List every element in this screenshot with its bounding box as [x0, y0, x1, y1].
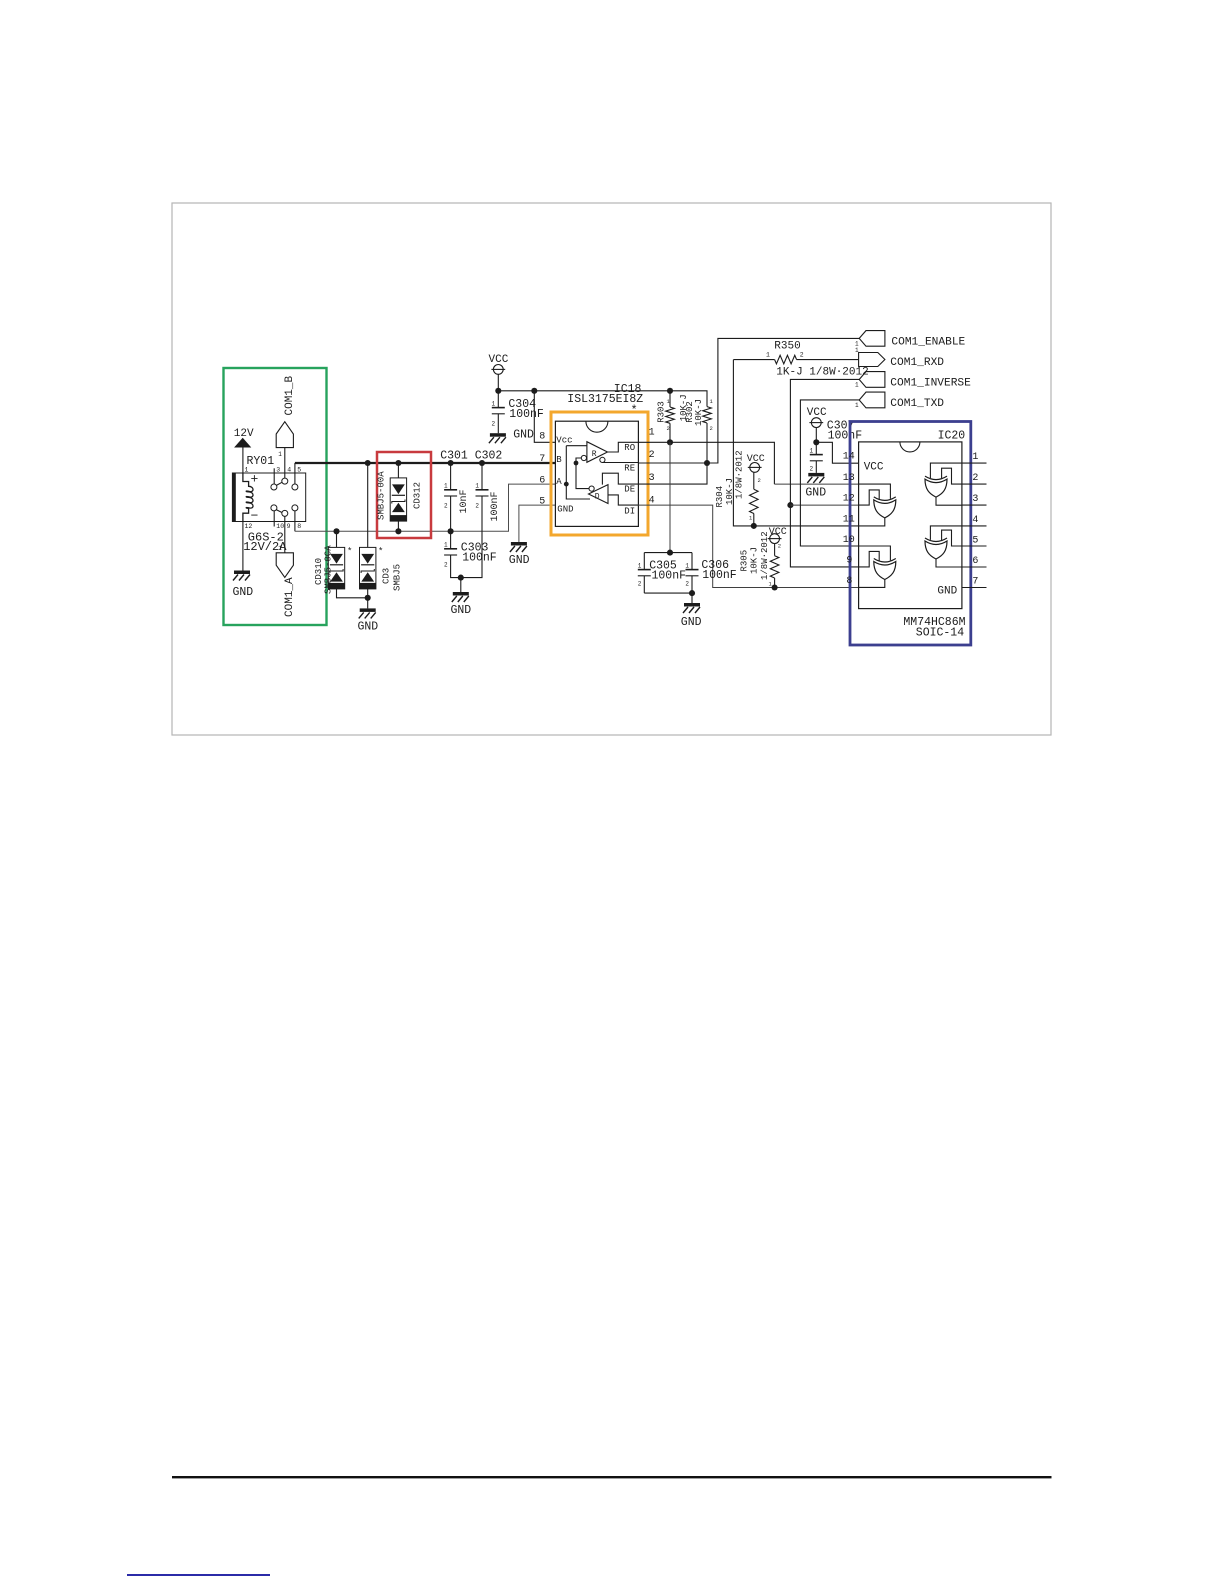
- svg-text:2: 2: [649, 450, 655, 461]
- wire VCC rail: [498, 391, 707, 407]
- svg-text:1: 1: [278, 451, 282, 458]
- svg-text:CD3: CD3: [382, 568, 392, 584]
- svg-text:8: 8: [297, 523, 301, 530]
- svg-text:VCC: VCC: [864, 461, 884, 473]
- svg-text:10K-J: 10K-J: [694, 399, 704, 426]
- svg-text:100nF: 100nF: [509, 408, 544, 421]
- svg-text:GND: GND: [805, 486, 826, 499]
- svg-text:1: 1: [685, 562, 689, 569]
- svg-text:4: 4: [287, 466, 291, 473]
- capacitor C306: [691, 553, 693, 570]
- svg-text:2: 2: [444, 503, 448, 510]
- wire RO node to IC20 pin 13: [774, 483, 858, 485]
- svg-text:COM1_INVERSE: COM1_INVERSE: [890, 378, 971, 390]
- IC18 driver triangle D: [589, 485, 609, 504]
- svg-text:1: 1: [766, 351, 770, 358]
- svg-text:7: 7: [972, 577, 978, 588]
- svg-text:1K-J 1/8W·2012: 1K-J 1/8W·2012: [776, 366, 868, 378]
- wire R350 to IC20 pin 11: [733, 360, 858, 526]
- IC18 receiver triangle R: [587, 442, 608, 463]
- svg-text:D: D: [595, 492, 600, 501]
- svg-text:COM1_TXD: COM1_TXD: [890, 398, 944, 410]
- svg-text:A: A: [556, 477, 562, 487]
- bottom-left blue link line: [127, 1574, 270, 1576]
- svg-text:SOIC-14: SOIC-14: [916, 626, 964, 639]
- svg-text:CD312: CD312: [413, 482, 423, 509]
- svg-text:6: 6: [539, 475, 545, 486]
- ground symbol (diodes): [360, 608, 376, 612]
- connector flag COM1_B: [276, 422, 293, 448]
- svg-text:B: B: [556, 455, 562, 465]
- svg-text:3: 3: [649, 473, 655, 484]
- svg-text:GND: GND: [358, 621, 379, 634]
- XOR gate 1 (pins 1,2 -> 3): [925, 476, 947, 480]
- svg-text:1: 1: [810, 447, 814, 454]
- wire COM1_TXD to IC20 pin 10: [800, 400, 859, 546]
- svg-text:100nF: 100nF: [652, 570, 687, 583]
- svg-text:GND: GND: [451, 604, 472, 617]
- svg-text:1: 1: [245, 466, 249, 473]
- svg-text:2: 2: [475, 503, 479, 510]
- wire C307/VCC to IC20 pin 14: [816, 442, 858, 463]
- svg-text:8: 8: [846, 576, 852, 587]
- relay RY01 body: [232, 473, 305, 522]
- capacitor C301: [450, 463, 452, 490]
- svg-text:*: *: [378, 547, 383, 557]
- wire lower bus A net: [295, 484, 556, 531]
- svg-text:10nF: 10nF: [459, 489, 470, 513]
- svg-text:10K-J: 10K-J: [750, 547, 760, 574]
- diode CD310: [336, 531, 338, 547]
- wire RO net: [638, 442, 774, 484]
- svg-text:SMBJ5-00A: SMBJ5-00A: [376, 471, 386, 520]
- relay contacts top row: [271, 484, 277, 490]
- connector flag COM1_RXD: [859, 353, 885, 367]
- svg-text:GND: GND: [513, 429, 534, 442]
- node diodes to ground: [365, 595, 371, 601]
- junction dots on buses: [365, 460, 371, 466]
- svg-text:R305: R305: [740, 550, 750, 572]
- svg-text:12V: 12V: [234, 428, 254, 440]
- svg-text:COM1_ENABLE: COM1_ENABLE: [891, 336, 965, 348]
- svg-text:3: 3: [972, 494, 978, 505]
- svg-text:1/8W·2012: 1/8W·2012: [760, 531, 770, 580]
- node C302/C303 to ground: [458, 575, 464, 581]
- resistor R302: [703, 407, 712, 423]
- IC20 right pin stubs: [962, 462, 987, 464]
- svg-text:2: 2: [972, 473, 978, 484]
- wire VCC to IC18 pin 8: [534, 391, 555, 443]
- svg-text:GND: GND: [937, 585, 957, 597]
- svg-text:COM1_B: COM1_B: [284, 375, 296, 415]
- svg-text:2: 2: [710, 425, 713, 432]
- svg-text:10: 10: [843, 535, 855, 546]
- wire RE to COM1_ENABLE: [638, 338, 859, 463]
- diode CD312: [397, 463, 399, 478]
- ground symbol (C305/C306): [684, 603, 700, 607]
- svg-text:2: 2: [810, 465, 814, 472]
- transceiver highlight box (orange): [551, 412, 648, 535]
- wire COM1_INVERSE to IC20 pins 12/9: [790, 379, 859, 567]
- svg-text:1: 1: [444, 542, 448, 549]
- capacitor C303: [450, 531, 452, 549]
- wire relay pin 12 to ground: [242, 522, 244, 571]
- wire IC20 pin 12: [790, 504, 858, 506]
- svg-text:CD310: CD310: [314, 558, 324, 585]
- IC18 internal wiring: [574, 461, 579, 466]
- svg-text:*: *: [347, 547, 352, 557]
- node C305/C306 to ground: [644, 592, 692, 594]
- XOR IC highlight box (navy): [850, 422, 971, 646]
- svg-text:1: 1: [278, 545, 282, 552]
- svg-text:C301 C302: C301 C302: [440, 450, 502, 463]
- ground symbol (relay): [234, 571, 250, 575]
- svg-text:2: 2: [778, 543, 781, 550]
- ground symbol (C304): [490, 433, 506, 437]
- svg-text:R304: R304: [715, 486, 725, 508]
- svg-text:6: 6: [972, 556, 978, 567]
- ground symbol (C307): [808, 473, 824, 477]
- capacitor C304: [497, 391, 499, 408]
- relay contacts bottom row: [271, 505, 277, 511]
- wire main bus B net: [295, 462, 556, 464]
- svg-text:11: 11: [843, 514, 855, 525]
- svg-text:5: 5: [297, 466, 301, 473]
- svg-text:1: 1: [492, 400, 496, 407]
- op-amp/transceiver IC18 body: [555, 421, 638, 526]
- svg-text:DI: DI: [624, 506, 635, 516]
- svg-text:1: 1: [855, 402, 859, 409]
- svg-text:1: 1: [972, 452, 978, 463]
- svg-text:2: 2: [444, 562, 448, 569]
- svg-text:2: 2: [758, 477, 761, 484]
- svg-text:GND: GND: [233, 586, 254, 599]
- connector flag COM1_ENABLE: [859, 331, 885, 347]
- svg-text:4: 4: [972, 515, 978, 526]
- diode CD311: [367, 463, 369, 547]
- svg-text:R350: R350: [774, 340, 800, 352]
- svg-text:COM1_RXD: COM1_RXD: [890, 357, 944, 369]
- svg-text:9: 9: [846, 556, 852, 567]
- schematic frame border: [172, 203, 1051, 735]
- resistor R303: [669, 391, 671, 407]
- svg-text:R303: R303: [657, 401, 667, 423]
- wire 12V to relay coil pin 1: [242, 448, 244, 474]
- relay pin stubs: [273, 468, 275, 484]
- ground symbol (C303): [453, 592, 469, 596]
- svg-text:2: 2: [667, 425, 670, 432]
- svg-text:100nF: 100nF: [828, 430, 863, 443]
- XOR gate 3 (pins 10,9 -> 8): [874, 559, 896, 563]
- connector flag COM1_TXD: [859, 392, 885, 408]
- relay coil: [243, 473, 253, 522]
- svg-text:2: 2: [492, 420, 496, 427]
- svg-text:100nF: 100nF: [490, 491, 501, 521]
- svg-text:3: 3: [276, 466, 280, 473]
- svg-text:12: 12: [843, 494, 855, 505]
- wire DI net to IC20 pin 8: [638, 505, 859, 587]
- capacitor C307: [815, 428, 817, 443]
- svg-text:8: 8: [539, 432, 545, 443]
- footer rule: [172, 1476, 1052, 1478]
- svg-text:5: 5: [972, 535, 978, 546]
- wire DE net up to RE node: [638, 463, 707, 484]
- svg-text:5: 5: [539, 496, 545, 507]
- svg-text:Vcc: Vcc: [556, 436, 572, 446]
- svg-text:100nF: 100nF: [462, 551, 497, 564]
- resistor R305: [774, 544, 776, 556]
- svg-text:IC20: IC20: [938, 429, 966, 442]
- svg-text:2: 2: [638, 580, 642, 587]
- capacitor C305: [644, 552, 692, 554]
- svg-text:13: 13: [843, 473, 855, 484]
- svg-text:2: 2: [685, 580, 689, 587]
- svg-text:10: 10: [276, 523, 284, 530]
- svg-text:RO: RO: [624, 443, 635, 453]
- svg-text:R: R: [592, 450, 597, 459]
- svg-text:10K-J: 10K-J: [725, 478, 735, 505]
- XOR IC20 body: [859, 442, 962, 609]
- svg-text:VCC: VCC: [769, 527, 787, 538]
- XOR gate 4 (pins 4,5 -> 6): [925, 538, 947, 542]
- svg-text:9: 9: [287, 523, 291, 530]
- ground symbol (IC18 pin5): [511, 542, 527, 546]
- svg-text:COM1_A: COM1_A: [284, 577, 296, 617]
- svg-text:GND: GND: [509, 554, 530, 567]
- svg-text:1: 1: [855, 382, 859, 389]
- svg-text:1: 1: [855, 347, 859, 354]
- svg-text:+: +: [251, 472, 259, 487]
- svg-text:SMBJ5: SMBJ5: [393, 564, 403, 591]
- relay section highlight box (green): [224, 368, 327, 625]
- svg-text:SMBJ5-0CA: SMBJ5-0CA: [324, 545, 334, 594]
- svg-text:1: 1: [475, 483, 479, 490]
- svg-text:1: 1: [444, 483, 448, 490]
- svg-text:DE: DE: [624, 484, 635, 494]
- svg-text:7: 7: [539, 454, 545, 465]
- wire RO node down to C305/C306: [669, 442, 671, 552]
- connector flag COM1_INVERSE: [859, 372, 885, 388]
- 12V supply symbol: [234, 438, 251, 448]
- svg-text:1: 1: [638, 562, 642, 569]
- capacitor C302: [481, 463, 483, 490]
- XOR gate 2 (pins 13,12 -> 11): [874, 497, 896, 501]
- svg-text:100nF: 100nF: [702, 569, 737, 582]
- svg-text:RE: RE: [624, 463, 635, 473]
- svg-text:RY01: RY01: [247, 455, 275, 468]
- svg-text:GND: GND: [681, 616, 702, 629]
- svg-text:2: 2: [800, 351, 804, 358]
- TVS diode highlight box (red): [377, 452, 431, 538]
- svg-text:1: 1: [649, 428, 655, 439]
- svg-text:12: 12: [245, 523, 253, 530]
- resistor R304: [753, 472, 755, 489]
- connector flag COM1_A: [276, 553, 293, 578]
- svg-text:14: 14: [843, 452, 855, 463]
- wire IC18 GND pin 5: [519, 505, 556, 542]
- svg-text:1/8W·2012: 1/8W·2012: [735, 450, 745, 499]
- svg-text:−: −: [251, 509, 259, 524]
- svg-text:GND: GND: [557, 504, 573, 514]
